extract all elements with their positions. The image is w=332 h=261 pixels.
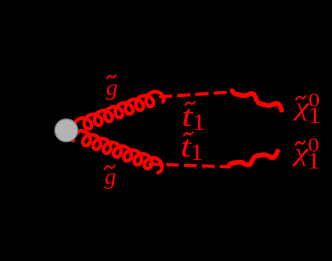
- svg-text:1: 1: [192, 111, 205, 136]
- svg-text:1: 1: [307, 149, 320, 174]
- svg-text:g: g: [105, 164, 117, 190]
- svg-text:1: 1: [308, 104, 321, 129]
- svg-text:g: g: [106, 75, 118, 101]
- svg-text:1: 1: [190, 141, 203, 166]
